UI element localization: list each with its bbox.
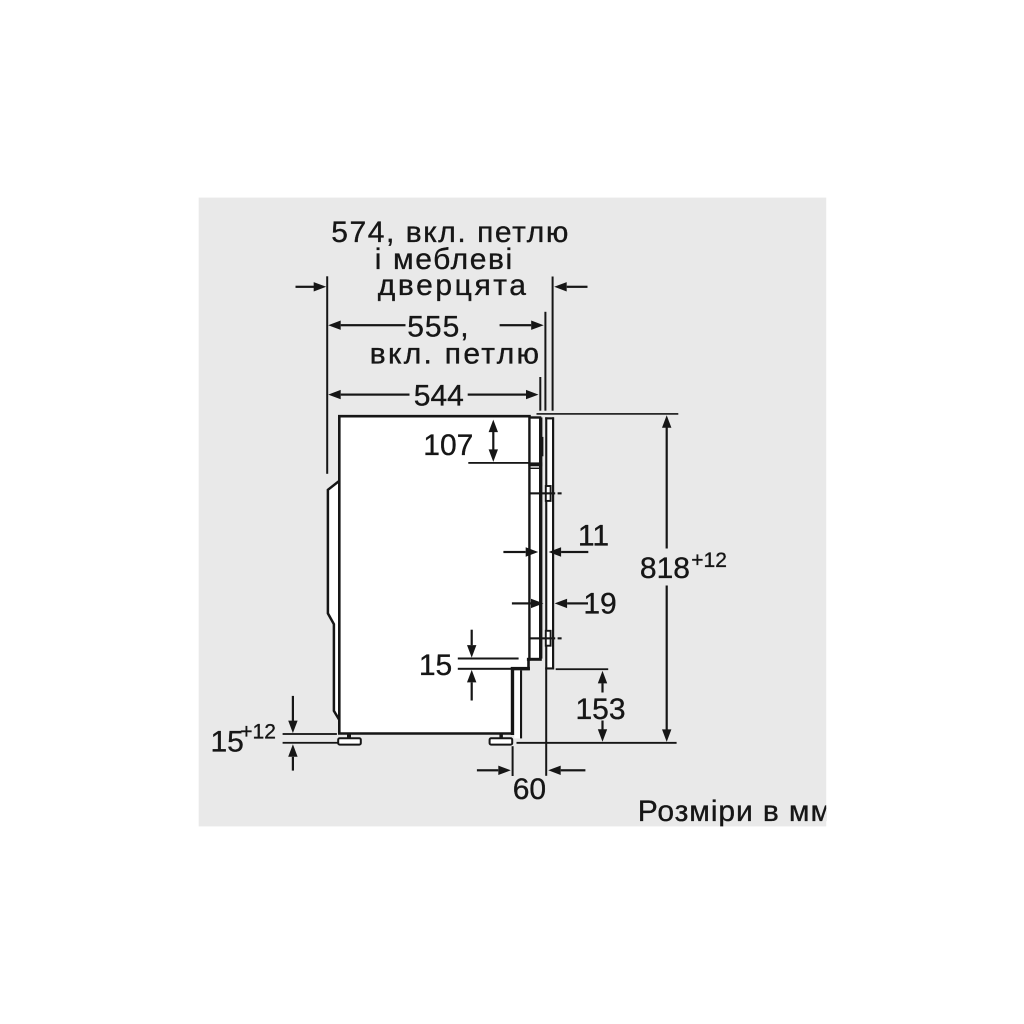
hinge mounting blob <box>540 437 544 456</box>
lower front step bar 1 <box>527 658 542 661</box>
door panel right line <box>552 417 554 669</box>
front niche white channel <box>531 419 539 659</box>
dimension 574 left arrow <box>296 282 327 291</box>
machine foot right plate <box>490 738 513 744</box>
dimension 555 right arrow <box>500 321 544 330</box>
svg-text:544: 544 <box>414 380 464 413</box>
svg-text:11: 11 <box>578 520 609 553</box>
dimension 60 right arrow <box>548 766 585 775</box>
svg-text:153: 153 <box>575 693 625 726</box>
dimension 19 right arrow <box>555 599 588 608</box>
153 top extension line <box>556 668 609 670</box>
dimension 574 right arrow <box>554 282 587 291</box>
dimension 107 reference line <box>468 462 528 464</box>
svg-text:15: 15 <box>419 649 452 682</box>
thin line below separator <box>530 468 541 469</box>
15+12 reference line lower <box>283 742 338 744</box>
dimension 15 lower arrow <box>467 670 476 701</box>
svg-text:15: 15 <box>211 725 244 758</box>
dimension 15+12 lower arrow <box>288 744 297 770</box>
top reference line (818) <box>537 413 679 415</box>
dimension 60 left arrow <box>477 766 511 775</box>
dimension 153 upper arrow <box>598 671 607 693</box>
gray drawing panel <box>199 198 827 827</box>
dimension 15 upper arrow <box>467 630 476 658</box>
svg-text:+12: +12 <box>691 549 727 572</box>
60 extension line left <box>512 746 514 776</box>
door panel left line <box>545 417 547 669</box>
svg-text:19: 19 <box>583 588 616 621</box>
dimension 15+12 upper arrow <box>288 696 297 733</box>
machine foot left plate <box>338 738 361 744</box>
extension line right 574 <box>552 277 554 411</box>
lower front step bar 2 <box>511 667 530 671</box>
dimension 544 left arrow <box>328 390 409 399</box>
door panel bottom edge <box>545 667 554 669</box>
machine body outline <box>339 416 529 733</box>
extension line left (574/555/544) <box>326 276 328 474</box>
plinth recessed white face <box>514 670 520 738</box>
dimension 818 vertical line upper <box>662 415 671 548</box>
plinth front thin line <box>520 670 522 738</box>
60 extension line right (door extension) <box>545 670 547 776</box>
niche separator block (107 level) <box>528 462 542 466</box>
dimension 544 right arrow <box>468 390 539 399</box>
dimension 818 vertical line lower <box>662 586 671 742</box>
bottom hinge box <box>546 631 551 646</box>
front frame vertical line <box>539 417 542 658</box>
15 reference line upper <box>458 658 519 660</box>
svg-text:дверцята: дверцята <box>378 269 529 302</box>
svg-text:818: 818 <box>640 552 690 585</box>
top hinge center line dash <box>558 492 562 494</box>
machine foot right stem <box>499 735 503 739</box>
svg-text:вкл. петлю: вкл. петлю <box>370 337 542 370</box>
machine body side-panel bulge <box>328 481 339 720</box>
svg-text:+12: +12 <box>240 721 276 744</box>
door panel white interior <box>546 418 554 670</box>
top hinge box <box>546 486 551 501</box>
machine foot left stem <box>347 735 351 739</box>
bottom hinge center line <box>529 637 556 639</box>
svg-text:Розміри в мм: Розміри в мм <box>638 795 832 828</box>
dimension 19 left arrow <box>512 599 544 608</box>
dimension 11 left arrow <box>503 547 538 556</box>
dimension 107 double arrow <box>489 420 498 462</box>
plinth front thick line <box>511 667 515 735</box>
door panel top edge <box>545 417 554 419</box>
floor line <box>517 742 677 744</box>
dimension 11 right arrow <box>549 547 589 556</box>
15+12 reference line upper <box>283 733 337 735</box>
dimension 153 lower arrow <box>598 721 607 742</box>
top hinge center line <box>529 492 556 494</box>
dimension 555 left arrow <box>328 321 405 330</box>
front frame top bar <box>529 416 542 418</box>
svg-text:107: 107 <box>423 429 473 462</box>
svg-text:60: 60 <box>513 773 546 806</box>
bottom hinge center line dash <box>558 637 562 639</box>
15 reference line lower <box>458 668 513 670</box>
extension line right 555 <box>544 312 546 411</box>
extension line right 544 <box>539 377 541 411</box>
